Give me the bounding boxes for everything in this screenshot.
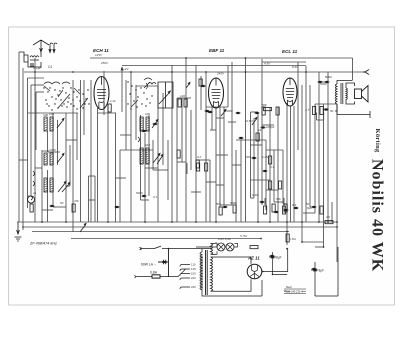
- svg-text:125V: 125V: [95, 53, 103, 57]
- tube ECL 11: [283, 78, 297, 106]
- resistor: [178, 99, 181, 107]
- capacitor: [208, 111, 211, 113]
- wire: [121, 67, 123, 112]
- wire: [250, 112, 252, 198]
- pilot lamp 2: [226, 243, 234, 251]
- output transformer T2: [335, 81, 355, 112]
- terminal T bottom right: [337, 81, 370, 119]
- wire: [251, 111, 259, 113]
- wire: [310, 206, 315, 208]
- svg-text:5000: 5000: [136, 191, 143, 195]
- wire: [336, 104, 338, 262]
- bandswitch wiper arms 2: [131, 78, 152, 107]
- pickup symbol: [28, 196, 35, 203]
- wire: [231, 62, 233, 205]
- fuse 0,8A: [136, 276, 178, 278]
- rectifier tube AZ 11: [247, 264, 262, 279]
- IF coil pair /: [44, 178, 53, 192]
- svg-text:100: 100: [43, 113, 48, 117]
- svg-text:1,2M: 1,2M: [262, 155, 269, 159]
- wire: [185, 58, 187, 222]
- wire: [286, 103, 288, 245]
- wire: [245, 58, 247, 222]
- wire: [53, 206, 66, 208]
- trimmer capacitor: [152, 119, 158, 128]
- resistor: [108, 104, 111, 112]
- wire: [303, 212, 315, 214]
- svg-text:Nobilis 40 WK: Nobilis 40 WK: [369, 159, 386, 272]
- wire: [116, 177, 127, 179]
- resistor: [313, 107, 316, 115]
- capacitor: [239, 137, 242, 139]
- wire: [34, 58, 36, 222]
- wire: [219, 107, 221, 207]
- wire: [251, 197, 255, 199]
- wire: [191, 191, 201, 193]
- resistor: [264, 108, 272, 111]
- wire: [176, 98, 178, 222]
- wire: [309, 85, 311, 207]
- wire: [205, 72, 207, 222]
- wire: [352, 58, 354, 80]
- capacitor: [252, 157, 255, 159]
- wire: [115, 113, 117, 222]
- wire: [186, 163, 188, 174]
- wire: [57, 120, 59, 165]
- svg-text:220: 220: [191, 276, 196, 280]
- svg-text:50: 50: [330, 109, 334, 113]
- wire: [277, 107, 279, 222]
- wire: [331, 202, 333, 222]
- bandswitch contact dots: [43, 87, 89, 110]
- wire: [317, 119, 324, 121]
- svg-text:8µF: 8µF: [319, 269, 325, 273]
- wire: [315, 103, 337, 105]
- svg-text:125: 125: [191, 267, 196, 271]
- wire: [206, 181, 216, 183]
- lamp capacitor: [158, 249, 169, 277]
- capacitor: [153, 123, 156, 125]
- wire: [162, 93, 164, 165]
- capacitor: [142, 130, 145, 132]
- wire: [265, 140, 267, 210]
- tube ECH 11: [94, 77, 109, 110]
- wire: [273, 150, 275, 202]
- svg-text:8µF: 8µF: [307, 206, 312, 210]
- capacitor: [325, 81, 328, 83]
- wire: [216, 117, 224, 119]
- ground bus wire: [71, 238, 261, 240]
- mains switch S1: [141, 246, 212, 250]
- svg-text:0,2: 0,2: [197, 155, 202, 159]
- wire: [125, 80, 127, 150]
- svg-text:5000: 5000: [320, 82, 327, 86]
- resistor: [286, 234, 289, 242]
- wire: [144, 133, 146, 222]
- wire: [293, 106, 295, 222]
- wire: [262, 61, 306, 63]
- svg-text:100: 100: [145, 112, 150, 116]
- wire: [94, 176, 96, 222]
- wire: [171, 65, 173, 222]
- wire: [28, 112, 79, 114]
- svg-text:50k: 50k: [216, 202, 221, 206]
- wire: [148, 115, 150, 196]
- IF coil pair /: [140, 117, 149, 131]
- trimmer capacitor: [221, 109, 226, 116]
- wire: [97, 108, 99, 222]
- wire: [167, 140, 169, 200]
- wire: [153, 169, 168, 171]
- svg-text:0,1: 0,1: [153, 195, 158, 199]
- resistor: [152, 275, 160, 278]
- wire: [257, 112, 259, 222]
- wire: [305, 66, 307, 222]
- resistor: [325, 221, 333, 224]
- voltage selector taps: [178, 265, 190, 290]
- svg-text:50k: 50k: [262, 103, 267, 107]
- mains terminals: [135, 247, 142, 278]
- wire: [130, 72, 132, 222]
- capacitor: [312, 268, 315, 270]
- wire: [251, 144, 263, 146]
- wire junction dots: [22, 57, 338, 275]
- svg-text:50k: 50k: [276, 197, 281, 201]
- capacitor: [318, 81, 321, 83]
- resistor: [269, 181, 272, 189]
- capacitor 8uF b: [311, 269, 318, 271]
- svg-text:AZ 11: AZ 11: [247, 256, 260, 261]
- svg-text:0,1M: 0,1M: [252, 193, 259, 197]
- svg-text:Netz: Netz: [286, 285, 292, 289]
- wire: [181, 98, 183, 162]
- svg-text:240: 240: [191, 285, 196, 289]
- wire: [283, 198, 285, 205]
- resistor: [197, 163, 200, 171]
- wire: [122, 65, 306, 67]
- wire: [297, 62, 299, 150]
- bandswitch contact dots 2: [127, 81, 152, 109]
- wire: [177, 97, 191, 99]
- resistor: [272, 204, 275, 212]
- resistor: [320, 206, 323, 214]
- wire: [196, 159, 210, 161]
- svg-text:0,3: 0,3: [292, 203, 297, 207]
- svg-text:110: 110: [191, 263, 196, 267]
- wire: [42, 209, 53, 211]
- capacitor: [255, 112, 258, 114]
- wire: [266, 149, 283, 151]
- wire: [135, 85, 137, 140]
- wire: [195, 65, 197, 222]
- terminal arrow antenna line: [363, 70, 369, 75]
- resistor: [320, 107, 323, 115]
- svg-text:60W LA→: 60W LA→: [141, 263, 156, 267]
- wire: [253, 118, 255, 198]
- wire: [327, 72, 329, 222]
- wire: [98, 112, 117, 114]
- switch hooks left: [33, 137, 140, 186]
- svg-text:0,5M: 0,5M: [246, 119, 253, 123]
- wire: [319, 81, 328, 83]
- svg-text:Körting: Körting: [374, 129, 381, 154]
- wire: [145, 167, 158, 169]
- wire: [216, 154, 228, 156]
- wire: [41, 150, 43, 222]
- wire: [323, 113, 325, 121]
- capacitor: [270, 255, 273, 257]
- svg-text:0,1µF: 0,1µF: [33, 66, 43, 70]
- wire: [90, 80, 92, 222]
- capacitor: [274, 211, 277, 213]
- resistor: [196, 160, 199, 168]
- capacitor: [261, 126, 264, 128]
- resistor: [283, 206, 286, 214]
- capacitor: [162, 261, 165, 263]
- svg-text:0,8A: 0,8A: [150, 271, 158, 275]
- svg-text:4,7: 4,7: [305, 108, 310, 112]
- wire: [240, 140, 242, 222]
- wire: [316, 113, 318, 121]
- svg-text:50: 50: [60, 201, 64, 205]
- pilot lamp 1: [217, 243, 225, 251]
- svg-text:0,1: 0,1: [270, 165, 275, 169]
- wire: [19, 159, 28, 161]
- svg-text:ca: ca: [33, 191, 37, 195]
- wire: [282, 150, 284, 204]
- IF coil pair /: [140, 148, 149, 164]
- svg-text:500: 500: [246, 155, 251, 159]
- wire: [283, 203, 287, 205]
- wire: [35, 92, 37, 150]
- wire: [220, 204, 232, 206]
- wire: [24, 71, 365, 73]
- IF coil pair 1000/: [44, 153, 53, 165]
- wire: [177, 161, 186, 163]
- resistor: [256, 133, 259, 141]
- wire: [103, 71, 105, 115]
- svg-text:0,1M: 0,1M: [289, 237, 296, 241]
- capacitor: [294, 207, 297, 209]
- svg-text:EBF 11: EBF 11: [209, 48, 225, 53]
- trimmer capacitor: [186, 82, 190, 88]
- svg-text:6,6V: 6,6V: [292, 65, 299, 69]
- bandswitch wiper arms: [44, 82, 88, 108]
- trimmer capacitor: [57, 118, 64, 128]
- wire: [47, 170, 49, 222]
- resistor: [262, 107, 265, 115]
- svg-text:5000: 5000: [325, 75, 332, 79]
- wire: [72, 80, 74, 232]
- AZ11 wiring: [215, 249, 288, 297]
- svg-text:100pF: 100pF: [266, 125, 275, 129]
- svg-text:ECL 11: ECL 11: [282, 49, 298, 54]
- wire: [216, 184, 224, 186]
- svg-text:5000: 5000: [226, 109, 233, 113]
- wire: [227, 65, 229, 107]
- wire: [36, 91, 44, 93]
- capacitor: [223, 206, 226, 208]
- wire: [31, 84, 44, 86]
- resistor: [276, 107, 279, 115]
- wire: [28, 77, 45, 79]
- wire: [18, 52, 20, 222]
- wire: [140, 115, 142, 200]
- capacitor: [312, 206, 315, 208]
- capacitor: [324, 108, 327, 110]
- antenna: [33, 40, 57, 53]
- capacitor: [284, 209, 287, 211]
- svg-text:1,2k: 1,2k: [110, 99, 116, 103]
- wire: [236, 139, 266, 141]
- wire: [66, 185, 70, 187]
- ground: [15, 222, 22, 241]
- wire: [52, 113, 54, 205]
- resistor: [279, 181, 282, 189]
- resistor: [219, 207, 222, 215]
- power transformer T1: [200, 252, 202, 290]
- resistor: [233, 205, 236, 213]
- wire: [210, 129, 216, 131]
- capacitor: [201, 85, 204, 87]
- tube EBF 11: [209, 78, 224, 108]
- wire: [120, 149, 153, 151]
- wire: [22, 68, 24, 230]
- wire: [251, 179, 271, 181]
- lamp wiring: [196, 243, 238, 254]
- svg-text:245V: 245V: [216, 72, 225, 76]
- wire: [88, 176, 90, 222]
- resistor: [72, 204, 75, 212]
- resistor: [30, 204, 33, 212]
- wire: [232, 164, 241, 166]
- svg-text:8µF: 8µF: [276, 256, 282, 260]
- resistor: [264, 206, 267, 214]
- wire: [90, 57, 353, 59]
- coil hump osc: [148, 83, 156, 85]
- svg-text:1M: 1M: [258, 128, 263, 132]
- capacitor: [236, 112, 239, 114]
- wire: [301, 85, 303, 242]
- wire: [223, 107, 225, 205]
- trimmer arrow osc: [159, 91, 170, 104]
- wire: [266, 189, 278, 191]
- svg-text:120: 120: [180, 94, 185, 98]
- wire: [35, 167, 42, 169]
- wire: [190, 110, 192, 170]
- wire: [65, 113, 67, 222]
- resistor: [284, 204, 287, 212]
- capacitor: [50, 205, 53, 207]
- IF coil pair 100/: [44, 117, 53, 131]
- ground bus wire: [32, 231, 289, 233]
- svg-text:5,7M: 5,7M: [240, 234, 247, 238]
- capacitor 8uF a: [269, 256, 276, 258]
- ground bus wire: [17, 221, 337, 223]
- wire: [89, 175, 96, 177]
- capacitor: [205, 110, 208, 112]
- svg-text:910: 910: [145, 143, 150, 147]
- wire: [264, 198, 266, 205]
- wire: [27, 78, 29, 208]
- wire: [274, 201, 283, 203]
- wire arrow: [121, 68, 123, 71]
- trimmer capacitor: [252, 117, 257, 125]
- svg-text:250V: 250V: [100, 61, 109, 65]
- wire: [200, 76, 202, 110]
- capacitor: [263, 170, 266, 172]
- svg-text:1000: 1000: [49, 148, 56, 152]
- trimmer capacitor: [80, 223, 86, 232]
- wire: [206, 106, 228, 108]
- wire: [48, 151, 61, 153]
- capacitor: [115, 206, 118, 208]
- svg-text:C4: C4: [48, 65, 52, 69]
- svg-text:6,3V 0,3A: 6,3V 0,3A: [218, 237, 231, 241]
- resistor: [184, 99, 187, 107]
- resistor: [177, 150, 180, 158]
- resistor: [205, 163, 208, 171]
- svg-text:47k: 47k: [74, 199, 79, 203]
- svg-text:150: 150: [191, 272, 196, 276]
- wire: [66, 139, 77, 141]
- svg-text:110-240 230 V: 110-240 230 V: [286, 290, 303, 294]
- wire: [269, 107, 271, 222]
- wire: [47, 131, 49, 152]
- wire: [69, 145, 71, 186]
- wire: [120, 134, 131, 136]
- svg-text:ZF 468/474 kHz: ZF 468/474 kHz: [29, 242, 57, 246]
- ground bus wire: [24, 226, 337, 228]
- wire: [152, 140, 154, 170]
- speaker LS: [355, 86, 369, 103]
- svg-text:100: 100: [49, 112, 54, 116]
- wire: [136, 85, 158, 87]
- wire: [215, 107, 217, 222]
- wire: [141, 199, 150, 201]
- trimmer capacitor: [57, 153, 64, 163]
- resistor 50: [199, 79, 202, 86]
- page scan border: [9, 27, 395, 305]
- wire: [76, 113, 78, 160]
- capacitor: [142, 195, 145, 197]
- wire: [209, 160, 211, 222]
- resistor: [269, 156, 272, 164]
- wire: [323, 104, 325, 247]
- wire: [262, 124, 274, 126]
- svg-text:5000: 5000: [230, 201, 237, 205]
- wire: [261, 59, 263, 205]
- wire: [228, 121, 236, 123]
- wire: [89, 199, 96, 201]
- wire: [83, 80, 85, 135]
- wire: [28, 195, 32, 197]
- wire: [235, 150, 237, 222]
- wire: [318, 72, 320, 222]
- wire: [315, 246, 324, 248]
- oscillator coil can: [158, 82, 173, 108]
- svg-text:4,5V: 4,5V: [264, 62, 271, 66]
- wire: [107, 104, 109, 222]
- wire: [80, 80, 82, 222]
- resistor: [250, 246, 258, 249]
- wire: [314, 104, 316, 213]
- wire: [211, 107, 213, 130]
- capacitor C antenna: [30, 64, 34, 66]
- wire: [157, 86, 159, 222]
- trimmer capacitor: [153, 153, 160, 163]
- coil antenna input: [19, 52, 41, 67]
